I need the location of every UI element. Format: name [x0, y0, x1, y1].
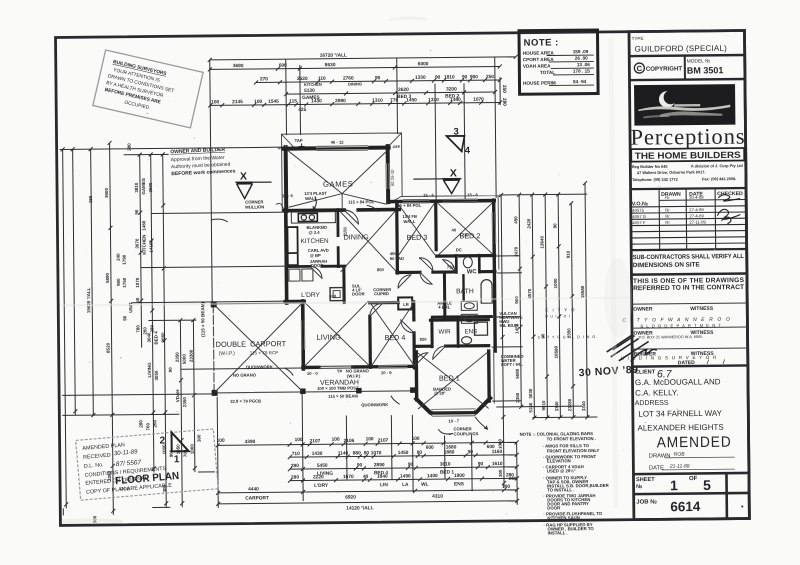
wall: games left [284, 147, 289, 211]
svg-text:BED 3: BED 3 [407, 233, 428, 242]
svg-text:260: 260 [152, 419, 157, 427]
svg-text:90: 90 [462, 74, 468, 80]
svg-text:87/ 5567: 87/ 5567 [116, 459, 142, 468]
title block: job no row [636, 498, 743, 515]
svg-text:DIMENSIONS ON SITE: DIMENSIONS ON SITE [633, 261, 700, 269]
svg-text:2107: 2107 [378, 438, 389, 444]
svg-text:LIVING: LIVING [147, 362, 152, 378]
svg-text:16580: 16580 [580, 285, 585, 298]
svg-text:13 .06: 13 .06 [577, 62, 590, 67]
svg-text:280: 280 [501, 98, 507, 106]
window: games right [386, 164, 389, 188]
windows in bed3/bed2 top wall [403, 199, 477, 203]
svg-text:46 - 12: 46 - 12 [331, 140, 345, 145]
svg-text:TYPE: TYPE [632, 36, 644, 41]
svg-text:SHEET: SHEET [636, 477, 655, 483]
wall: wir left [430, 320, 433, 347]
svg-text:ELEVATION: ELEVATION [547, 458, 571, 463]
svg-text:DOOR: DOOR [311, 263, 324, 268]
svg-text:23280: 23280 [567, 398, 572, 411]
svg-text:115: 115 [289, 99, 297, 105]
svg-text:600: 600 [279, 63, 287, 69]
city of wanneroo faint stamp text [620, 317, 731, 361]
diagonals dining [340, 211, 396, 272]
dim row 1 [210, 57, 516, 60]
svg-text:WITNESS: WITNESS [690, 306, 714, 312]
svg-text:90: 90 [408, 462, 414, 468]
svg-text:2890: 2890 [374, 462, 385, 468]
kitchen bench + hotplate [291, 212, 335, 223]
svg-text:100 × 100 TMB POST: 100 × 100 TMB POST [317, 385, 359, 390]
city of wanneroo faint stamp upper [537, 307, 596, 340]
svg-text:WC: WC [467, 269, 478, 275]
connector tops [60, 154, 199, 515]
wall: bed3/bed2 divider [434, 203, 438, 250]
diagonals bed2 [438, 203, 493, 255]
svg-text:1070: 1070 [135, 277, 140, 288]
wall: games bottom / kitchen-dining top [284, 210, 399, 211]
svg-text:280: 280 [291, 475, 299, 481]
svg-text:100: 100 [502, 484, 510, 490]
wall: wir/ens divider [456, 319, 459, 346]
svg-text:90: 90 [478, 461, 484, 467]
svg-text:8520: 8520 [106, 342, 111, 353]
svg-text:V.O.№: V.O.№ [632, 201, 648, 207]
svg-text:100: 100 [412, 436, 420, 442]
svg-text:3610: 3610 [440, 461, 451, 467]
svg-text:280: 280 [127, 143, 132, 151]
svg-text:3340: 3340 [581, 401, 586, 412]
svg-text:27-4-89: 27-4-89 [689, 207, 704, 212]
svg-text:CARPORT: CARPORT [245, 495, 269, 501]
svg-text:2220: 2220 [313, 474, 324, 480]
svg-text:Reg Builder No 645: Reg Builder No 645 [632, 164, 669, 169]
svg-text:100: 100 [254, 99, 262, 105]
title block outer box [629, 31, 749, 520]
fold lines (scan artifacts) [60, 300, 480, 306]
svg-text:5130: 5130 [304, 88, 315, 94]
leader arrows [211, 195, 487, 437]
svg-text:3050: 3050 [154, 370, 159, 381]
svg-text:CUPBD: CUPBD [374, 291, 389, 296]
svg-text:14120 °/ALL: 14120 °/ALL [346, 505, 373, 511]
svg-text:ENS: ENS [464, 328, 477, 335]
svg-text:COPYRIGHT: COPYRIGHT [646, 65, 683, 72]
ticks [208, 55, 518, 108]
svg-text:4: 4 [465, 145, 471, 156]
svg-text:90: 90 [357, 462, 363, 468]
title block: drawn / date lines [649, 451, 735, 471]
wall: kitchen bottom / ldry top [287, 265, 345, 268]
svg-text:3660: 3660 [160, 332, 165, 343]
svg-text:TO FRONT ELEVATION .: TO FRONT ELEVATION . [547, 436, 596, 442]
svg-text:2420: 2420 [526, 218, 531, 229]
svg-text:1: 1 [174, 454, 180, 465]
svg-text:DOOR: DOOR [352, 291, 365, 296]
svg-text:10 - 0: 10 - 0 [307, 371, 318, 376]
svg-text:Telephone: (09) 242 1772: Telephone: (09) 242 1772 [632, 177, 679, 182]
svg-text:DINING: DINING [348, 81, 362, 86]
svg-text:L'DRY: L'DRY [314, 483, 329, 489]
svg-text:900: 900 [470, 74, 478, 80]
svg-text:G.A. McDOUGALL AND: G.A. McDOUGALL AND [635, 377, 721, 387]
svg-text:14 - 6: 14 - 6 [282, 193, 293, 198]
svg-text:26 .00: 26 .00 [575, 56, 588, 61]
wall: dining/bed3 divider [395, 203, 399, 273]
svg-text:5180: 5180 [528, 402, 533, 413]
svg-text:SOFT / 94L: SOFT / 94L [501, 362, 523, 367]
border frame [56, 31, 750, 526]
svg-text:3600: 3600 [104, 187, 109, 198]
wall: ldry right [342, 267, 345, 303]
svg-text:KITCHEN SAUN .: KITCHEN SAUN . [547, 515, 582, 520]
svg-text:90: 90 [468, 449, 474, 455]
svg-text:100: 100 [295, 437, 303, 443]
svg-text:KITCHEN: KITCHEN [301, 238, 330, 245]
dim row 4 [286, 92, 495, 94]
svg-text:BM 3501: BM 3501 [687, 65, 724, 75]
LR closet [398, 297, 412, 309]
svg-text:90 PAD: 90 PAD [390, 256, 404, 261]
svg-text:600: 600 [426, 445, 434, 451]
svg-text:1880: 1880 [444, 449, 455, 455]
diagonals bed4 [371, 304, 414, 365]
carport outline [212, 304, 215, 393]
svg-text:2350: 2350 [175, 352, 180, 363]
water authority stamp text [170, 146, 236, 177]
svg-text:425: 425 [298, 107, 306, 113]
svg-text:900: 900 [116, 278, 121, 286]
wall: games right [386, 146, 391, 202]
svg-text:2350: 2350 [515, 392, 520, 403]
svg-text:90: 90 [122, 315, 127, 321]
bottom dim labels [217, 435, 515, 513]
svg-text:DRAWN: DRAWN [649, 453, 671, 459]
svg-text:100: 100 [332, 437, 340, 443]
svg-text:710: 710 [292, 451, 300, 457]
svg-text:GAMES: GAMES [141, 178, 146, 195]
svg-text:@ 28°: @ 28° [434, 391, 446, 396]
svg-text:C I T Y O: C I T Y O [545, 307, 576, 312]
svg-text:C.A. KELLY.: C.A. KELLY. [635, 388, 678, 397]
svg-text:1450: 1450 [406, 97, 417, 103]
svg-text:5: 5 [703, 477, 711, 493]
svg-text:10 - 9: 10 - 9 [381, 370, 392, 375]
title block: THE HOME BUILDERS bar [631, 148, 744, 162]
carport cross diagonals [214, 304, 302, 392]
window bed4 bottom [379, 365, 407, 368]
wall: living left outer [301, 301, 305, 369]
svg-text:RECEIVED: RECEIVED [83, 453, 111, 461]
svg-text:6920: 6920 [345, 494, 356, 500]
svg-text:730: 730 [447, 264, 455, 269]
svg-text:JOB №: JOB № [636, 498, 657, 505]
dim row 2 [210, 66, 500, 69]
svg-text:22.8 × 79 PGCB: 22.8 × 79 PGCB [230, 398, 261, 403]
svg-text:BED 4: BED 4 [385, 333, 406, 342]
wall: bath left [443, 273, 446, 318]
svg-text:820: 820 [420, 337, 428, 342]
svg-text:1: 1 [670, 477, 678, 493]
title block: Perceptions logo black box [634, 84, 735, 126]
svg-text:1160: 1160 [492, 449, 503, 455]
wall: living bottom / verandah top [303, 365, 371, 369]
svg-text:WALL: WALL [403, 219, 415, 224]
svg-text:115 + 84 POL: 115 + 84 POL [348, 199, 374, 204]
svg-text:5450: 5450 [317, 463, 328, 469]
diagonals bed3 [398, 204, 435, 255]
svg-text:LOT 34 FARNELL WAY: LOT 34 FARNELL WAY [638, 409, 722, 419]
svg-text:HOUSE AREA: HOUSE AREA [523, 50, 555, 55]
svg-text:6614: 6614 [670, 499, 701, 514]
svg-text:1720: 1720 [460, 232, 470, 237]
svg-text:1310: 1310 [428, 97, 439, 103]
svg-text:280: 280 [506, 472, 514, 478]
svg-text:6000: 6000 [418, 61, 429, 67]
svg-text:4310: 4310 [432, 494, 443, 500]
section marker X right [414, 167, 461, 193]
svg-text:4057 F: 4057 F [632, 220, 646, 225]
svg-text:90: 90 [552, 223, 557, 229]
scan smudges [62, 518, 122, 523]
svg-text:5080: 5080 [515, 368, 520, 379]
wall: corridor south [397, 270, 495, 274]
svg-text:8630: 8630 [325, 62, 336, 68]
eaves outline right wing [402, 196, 500, 417]
svg-text:40: 40 [451, 227, 456, 232]
svg-text:5890: 5890 [105, 272, 110, 283]
svg-text:KITCHEN: KITCHEN [142, 235, 147, 255]
wall: kitchen/dining divider [336, 210, 339, 267]
window bed2 right [492, 213, 495, 243]
svg-text:1310: 1310 [372, 98, 383, 104]
diagonals living [304, 301, 369, 366]
wall: bed1 top [415, 344, 489, 348]
svg-text:LIN: LIN [380, 482, 388, 488]
extension verticals [210, 57, 502, 304]
svg-text:@ BP: @ BP [310, 253, 321, 258]
svg-text:1400: 1400 [427, 473, 438, 479]
svg-text:159 .09: 159 .09 [573, 49, 589, 54]
bottom-left amended plan stamp [76, 429, 219, 500]
svg-text:4057 G: 4057 G [632, 214, 646, 219]
svg-text:Rr: Rr [665, 214, 670, 219]
svg-text:WIR: WIR [438, 328, 451, 335]
svg-text:1430: 1430 [311, 98, 322, 104]
left dim labels (rotated) [85, 142, 208, 523]
diagonals bed1 [418, 352, 489, 409]
svg-text:90: 90 [435, 75, 441, 81]
svg-text:15 - 6: 15 - 6 [423, 193, 434, 198]
svg-text:2106: 2106 [344, 438, 355, 444]
svg-text:ROB: ROB [674, 452, 686, 458]
svg-text:115 + 84 POL: 115 + 84 POL [395, 203, 421, 208]
svg-text:COUPLINGS: COUPLINGS [454, 431, 479, 436]
window living left [301, 321, 304, 349]
svg-text:3810: 3810 [134, 182, 139, 193]
eaves outline games [281, 133, 402, 211]
svg-text:(W.I.P.): (W.I.P.) [347, 373, 361, 378]
svg-text:16720 °/ALL: 16720 °/ALL [320, 53, 347, 59]
wall: bed4 top [370, 301, 398, 304]
svg-text:100: 100 [217, 438, 225, 444]
svg-text:150: 150 [88, 195, 93, 203]
svg-text:BED 1: BED 1 [440, 469, 455, 475]
svg-text:780: 780 [135, 325, 140, 333]
svg-text:TAP: TAP [295, 138, 303, 143]
svg-text:14165: 14165 [149, 239, 154, 252]
wc nook walls [456, 255, 479, 272]
svg-text:650: 650 [329, 294, 337, 299]
svg-text:X: X [450, 167, 457, 179]
svg-text:40: 40 [135, 297, 140, 303]
wall: wir/ens top [430, 318, 488, 322]
svg-text:DC: DC [456, 247, 462, 252]
svg-text:2620: 2620 [398, 87, 409, 93]
title block: client row [632, 365, 748, 397]
svg-text:1330: 1330 [415, 75, 426, 81]
title block: sheet row [633, 473, 749, 520]
svg-text:@ 3.4: @ 3.4 [308, 230, 320, 235]
amendment triangle 3/4 top [446, 126, 470, 156]
svg-text:910: 910 [566, 250, 571, 258]
scan speckles [75, 47, 732, 519]
svg-text:1545: 1545 [268, 99, 279, 105]
svg-text:10 - 7: 10 - 7 [448, 418, 459, 423]
title block: TYPE row [629, 35, 745, 56]
svg-text:1840: 1840 [377, 474, 388, 480]
svg-text:450: 450 [513, 216, 518, 224]
svg-text:1750: 1750 [122, 277, 127, 288]
svg-text:270: 270 [260, 76, 268, 82]
wall: bed4 bottom / verandah [371, 365, 415, 369]
svg-text:4390: 4390 [245, 439, 256, 445]
svg-text:1430: 1430 [312, 451, 323, 457]
svg-text:40575: 40575 [632, 208, 644, 213]
svg-text:100: 100 [366, 436, 374, 442]
owner signature scribble [607, 334, 657, 362]
svg-text:MODEL №: MODEL № [687, 58, 710, 64]
svg-text:GAMES: GAMES [323, 179, 354, 188]
svg-text:USED @ 28½°: USED @ 28½° [547, 468, 576, 473]
svg-text:C I T Y B U I L D I N G: C I T Y B U I L D I N G [538, 335, 597, 340]
title block: revisions table [631, 188, 747, 250]
svg-text:DATE: DATE [649, 465, 664, 471]
top-left surveyor stamp (rotated) [93, 50, 203, 128]
window: games top [317, 146, 368, 150]
svg-text:4 BRL: 4 BRL [438, 304, 451, 309]
svg-text:880: 880 [353, 450, 361, 456]
svg-text:1810: 1810 [444, 74, 455, 80]
svg-text:Rr: Rr [665, 207, 670, 212]
wall: living/bed4 divider [368, 316, 372, 367]
ens fixtures [474, 322, 487, 335]
svg-text:1490: 1490 [400, 473, 411, 479]
svg-text:13640: 13640 [540, 236, 545, 249]
title block: copyright / model no row [629, 55, 745, 80]
svg-text:OEP: OEP [393, 145, 401, 149]
svg-text:850: 850 [377, 267, 385, 272]
roof diagonals games [289, 150, 388, 209]
svg-text:L'DRY: L'DRY [301, 292, 320, 299]
wc fixture [463, 257, 472, 268]
svg-text:KITCHEN: KITCHEN [304, 82, 322, 87]
svg-text:27-4-89: 27-4-89 [689, 213, 704, 218]
svg-text:DRAWN: DRAWN [661, 192, 681, 198]
svg-text:1000: 1000 [190, 444, 195, 455]
svg-text:80: 80 [364, 450, 370, 456]
amendment triangle 2/1 [160, 432, 189, 465]
svg-text:280: 280 [291, 463, 299, 469]
bed1 bay window [416, 398, 490, 413]
svg-text:300: 300 [498, 469, 503, 477]
svg-text:90: 90 [168, 367, 173, 373]
svg-text:21-11-89: 21-11-89 [669, 464, 690, 470]
carport posts [211, 301, 217, 307]
svg-text:4440: 4440 [248, 486, 259, 492]
svg-text:280: 280 [149, 324, 154, 332]
svg-text:ENS: ENS [454, 481, 465, 487]
svg-text:Rr: Rr [665, 195, 670, 200]
svg-text:3030: 3030 [528, 388, 533, 399]
svg-text:1450: 1450 [514, 323, 519, 334]
svg-text:115 + 79 RCP: 115 + 79 RCP [250, 350, 279, 355]
svg-text:AMENDED: AMENDED [657, 434, 732, 452]
svg-text:30 NOV ’89: 30 NOV ’89 [578, 364, 639, 380]
svg-text:60 25-10: 60 25-10 [390, 169, 395, 186]
svg-text:DOOR: DOOR [547, 505, 561, 510]
svg-text:3690: 3690 [233, 63, 244, 69]
title block: address block [635, 399, 724, 432]
dim row 3 [256, 80, 500, 82]
sliding door living-verandah [319, 366, 353, 368]
wall: games top [284, 148, 389, 149]
svg-text:1900: 1900 [454, 473, 465, 479]
svg-text:100: 100 [211, 99, 219, 105]
wall: bath/wc divider [462, 275, 465, 299]
svg-text:MULLION: MULLION [245, 204, 264, 209]
svg-text:1460: 1460 [141, 220, 146, 231]
title block: owner / witness rows [632, 303, 748, 367]
svg-text:30-11-89: 30-11-89 [114, 449, 139, 457]
svg-text:CPORT AREA: CPORT AREA [523, 57, 554, 62]
svg-text:15 - 6: 15 - 6 [467, 192, 478, 197]
svg-text:SUB-CONTRACTORS SHALL VERIFY A: SUB-CONTRACTORS SHALL VERIFY ALL [633, 253, 744, 261]
checked column signature scribble [717, 194, 740, 223]
svg-text:D.L. No.: D.L. No. [84, 462, 104, 470]
ldry fixtures [289, 269, 313, 281]
svg-text:BATH: BATH [456, 288, 474, 295]
svg-text:X: X [240, 171, 247, 183]
svg-text:№: № [636, 484, 642, 490]
svg-text:GUILDFORD (SPECIAL): GUILDFORD (SPECIAL) [635, 44, 727, 54]
svg-text:1790: 1790 [122, 254, 127, 265]
svg-text:NOTE :: NOTE : [524, 37, 559, 48]
section marker X left [235, 170, 287, 210]
svg-text:90: 90 [134, 209, 139, 215]
svg-text:90: 90 [375, 75, 381, 81]
title block: address small print [632, 163, 744, 182]
svg-text:VDAH: VDAH [175, 389, 180, 402]
wall: bed2 bottom [437, 254, 495, 258]
svg-text:1000: 1000 [553, 278, 558, 289]
svg-text:TOTAL: TOTAL [540, 70, 555, 75]
svg-text:90: 90 [417, 450, 423, 456]
svg-text:C: C [637, 64, 643, 73]
svg-text:260: 260 [142, 327, 147, 335]
bath fixtures [481, 280, 492, 304]
svg-text:3200: 3200 [446, 86, 457, 92]
